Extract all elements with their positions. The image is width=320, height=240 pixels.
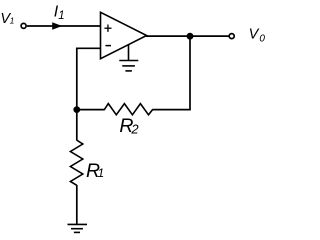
wire node A to R2 bbox=[77, 109, 105, 111]
label V1 bbox=[0, 11, 14, 27]
op-amp U1 bbox=[101, 12, 147, 58]
label V0 bbox=[249, 27, 266, 45]
op-amp plus pin mark bbox=[104, 25, 111, 32]
resistor R1 bbox=[70, 140, 82, 185]
wire output down to R2 bbox=[152, 36, 190, 109]
resistor R2 bbox=[104, 104, 152, 115]
svg-text:V: V bbox=[249, 27, 260, 43]
output terminal V0 bbox=[229, 34, 234, 39]
label R2 bbox=[119, 115, 139, 137]
wire V1 to op-amp noninverting input bbox=[27, 25, 101, 27]
svg-text:1: 1 bbox=[58, 10, 64, 22]
wire R1 to ground bbox=[76, 185, 78, 224]
wire feedback node to op-amp inverting input bbox=[77, 48, 101, 109]
label R1 bbox=[86, 160, 104, 182]
wire op-amp output to terminal bbox=[146, 35, 229, 37]
node output junction bbox=[187, 33, 194, 40]
current arrow I1 bbox=[52, 22, 62, 29]
svg-text:0: 0 bbox=[259, 33, 265, 44]
svg-text:2: 2 bbox=[130, 121, 139, 136]
wire node A down to R1 bbox=[76, 110, 78, 141]
label I1 bbox=[54, 3, 65, 22]
svg-text:1: 1 bbox=[10, 15, 15, 25]
ground at op-amp bbox=[119, 45, 138, 71]
svg-text:1: 1 bbox=[98, 166, 105, 180]
input terminal V1 bbox=[21, 23, 26, 28]
node A junction bbox=[73, 106, 80, 113]
op-amp minus pin mark bbox=[105, 45, 111, 47]
ground at R1 bbox=[68, 224, 88, 232]
